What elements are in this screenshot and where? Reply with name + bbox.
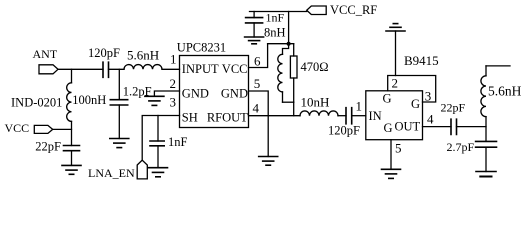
wire Q1 pin 5 to ground below: [390, 140, 392, 170]
port ANT: [33, 47, 59, 74]
svg-text:B9415: B9415: [404, 53, 439, 68]
ground above Q1 (inverted): [386, 24, 405, 31]
wire down to RFOUT line: [293, 102, 295, 116]
svg-text:5: 5: [254, 76, 260, 91]
svg-text:10nH: 10nH: [301, 95, 330, 110]
inductor L4 10nH: [300, 95, 338, 116]
U1 pin 5 GND stub: [249, 91, 269, 157]
svg-text:5.6nH: 5.6nH: [488, 84, 522, 99]
svg-text:G: G: [384, 121, 393, 135]
port VCC_RF: [307, 3, 378, 17]
U1 pin 2 GND stub: [154, 91, 179, 96]
wire C4 to ground: [157, 146, 159, 168]
svg-text:120pF: 120pF: [88, 46, 120, 60]
svg-text:22pF: 22pF: [35, 139, 61, 153]
capacitor C8 2.7pF: [447, 140, 497, 154]
wire C2 to ground: [71, 151, 73, 166]
inductor L5 5.6nH: [481, 66, 522, 117]
wire ANT to C1: [58, 68, 103, 70]
svg-text:2: 2: [392, 76, 399, 91]
svg-text:1: 1: [170, 52, 177, 67]
svg-text:4: 4: [253, 101, 260, 116]
capacitor C5 1nF: [246, 11, 285, 25]
wire C8 to ground: [485, 147, 487, 171]
svg-text:G: G: [383, 92, 392, 106]
wire C6 to Q1 pin 1: [352, 115, 366, 117]
svg-text:VCC: VCC: [222, 62, 248, 76]
wire C7 to output node: [457, 126, 487, 128]
wire L3/R1 bottom link: [283, 101, 294, 103]
svg-text:GND: GND: [221, 86, 248, 100]
inductor L1 5.6nH: [124, 48, 162, 70]
svg-text:6: 6: [254, 54, 261, 69]
svg-text:470Ω: 470Ω: [301, 60, 329, 74]
wire C1 to L1: [109, 68, 125, 70]
port VCC: [5, 121, 53, 135]
svg-text:5.6nH: 5.6nH: [127, 48, 159, 63]
wire riser to top rail: [288, 12, 290, 44]
wire SH node down to C4: [157, 116, 159, 142]
ground under C8: [476, 172, 496, 177]
svg-text:120pF: 120pF: [328, 123, 360, 137]
svg-text:UPC8231: UPC8231: [177, 41, 226, 55]
wire Q1 pin 2 to ground above: [395, 31, 397, 76]
op-amp U1 UPC8231 body: [177, 41, 249, 128]
inductor L2 100nH IND-0201: [11, 83, 106, 122]
wire L5 to node and C8: [485, 117, 487, 142]
svg-text:2.7pF: 2.7pF: [447, 140, 475, 154]
capacitor C6 120pF: [328, 108, 360, 138]
wire L2 to C2 node: [71, 121, 73, 145]
svg-text:RFOUT: RFOUT: [207, 110, 248, 124]
wire C5 to ground: [253, 23, 255, 37]
wire VCC to node: [53, 128, 72, 130]
wire L1 to U1 pin 1: [162, 68, 180, 70]
wire node down to C3: [118, 69, 120, 99]
inductor L3 8nH branch: [264, 26, 289, 103]
wire node ANT down to L2: [71, 69, 73, 83]
svg-text:3: 3: [170, 94, 177, 109]
svg-text:1nF: 1nF: [266, 11, 285, 25]
node VCC rail horizontal: [268, 43, 294, 45]
ground at U1 pin 5: [259, 157, 278, 166]
wire Q1 pin 4 OUT to C7: [423, 126, 452, 128]
capacitor C3 1.2pF: [110, 84, 151, 105]
svg-text:VCC_RF: VCC_RF: [330, 3, 377, 17]
svg-text:8nH: 8nH: [264, 26, 286, 40]
capacitor C2 22pF: [35, 139, 79, 153]
resistor R1 470 ohm: [290, 44, 328, 102]
U1 pin 6 VCC stub: [249, 44, 268, 68]
svg-text:IN: IN: [369, 109, 382, 123]
transistor Q1 B9415 body: [366, 53, 439, 140]
svg-text:SH: SH: [182, 110, 198, 124]
wire top rail: [250, 11, 307, 13]
svg-text:5: 5: [395, 140, 402, 155]
capacitor C1 120pF: [88, 46, 120, 77]
svg-text:OUT: OUT: [395, 119, 421, 133]
svg-text:1: 1: [356, 98, 363, 113]
svg-text:4: 4: [427, 112, 434, 127]
svg-text:GND: GND: [182, 86, 209, 100]
svg-text:INPUT: INPUT: [182, 62, 219, 76]
svg-text:100nH: 100nH: [72, 93, 106, 107]
svg-text:G: G: [411, 97, 420, 111]
svg-text:IND-0201: IND-0201: [11, 96, 62, 110]
U1 pin 3 SH stub: [142, 116, 179, 161]
svg-text:22pF: 22pF: [441, 101, 466, 115]
ground under Q1 pin 5: [382, 169, 401, 178]
ground under C2: [62, 165, 81, 174]
ground under C3: [110, 139, 129, 148]
svg-text:3: 3: [425, 89, 432, 104]
ground at U1 pin 2: [145, 96, 164, 105]
svg-text:2: 2: [170, 76, 177, 91]
svg-text:ANT: ANT: [33, 47, 58, 61]
svg-text:1nF: 1nF: [168, 135, 188, 149]
junction dot VCC node: [287, 42, 291, 46]
capacitor C7 22pF: [441, 101, 466, 135]
capacitor C4 1nF: [150, 135, 188, 149]
wire C3 to ground: [118, 105, 120, 139]
port LNA_EN: [88, 160, 147, 180]
ground under C4: [149, 168, 168, 177]
svg-text:LNA_EN: LNA_EN: [88, 166, 135, 180]
wire L4 to C6: [338, 115, 346, 117]
U1 pin 4 RFOUT stub: [249, 115, 301, 117]
ground under C5: [245, 37, 264, 44]
svg-text:VCC: VCC: [5, 121, 30, 135]
